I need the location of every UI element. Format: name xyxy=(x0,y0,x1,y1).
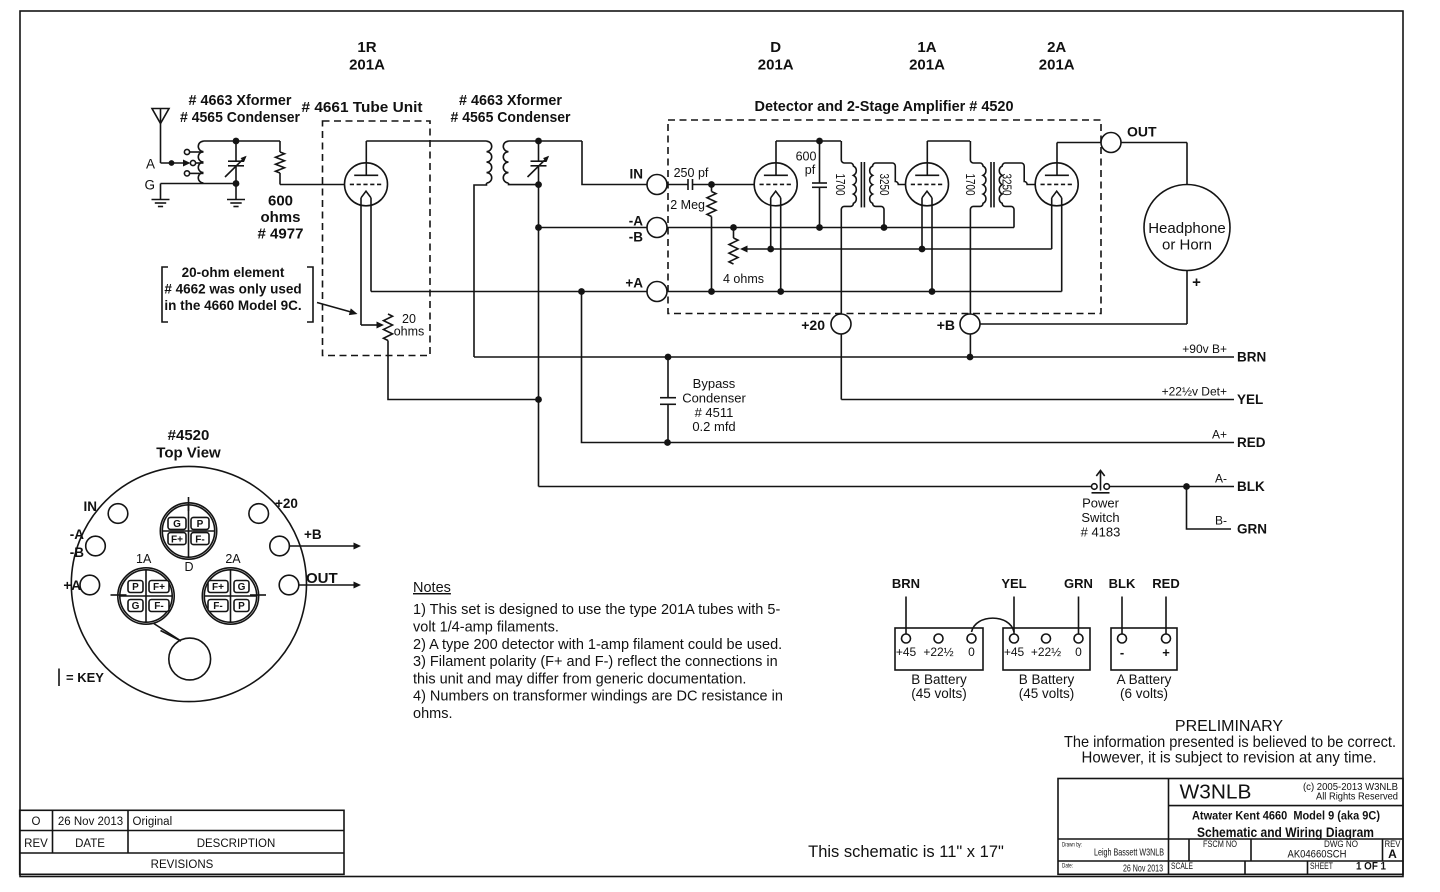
socket D pin F+ xyxy=(168,533,186,545)
capacitor C5 bypass # 4511 xyxy=(667,357,669,398)
svg-text:P: P xyxy=(132,582,139,593)
svg-text:2A: 2A xyxy=(1047,39,1066,56)
svg-text:# 4663 Xformer: # 4663 Xformer xyxy=(189,92,292,109)
socket 1A key mark xyxy=(111,594,127,596)
svg-text:(45 volts): (45 volts) xyxy=(1019,686,1075,701)
socket D pin P xyxy=(191,517,209,529)
node BLK to GRN xyxy=(1183,483,1190,490)
svg-text:201A: 201A xyxy=(909,57,945,74)
svg-text:4 ohms: 4 ohms xyxy=(723,272,764,286)
rheostat R4 4 ohms xyxy=(733,228,735,239)
svg-text:1A: 1A xyxy=(136,552,152,566)
wire -A -B rail xyxy=(539,227,1015,229)
rheostat R2 20 ohms xyxy=(384,314,393,340)
svg-text:Power: Power xyxy=(1082,496,1120,511)
arrow +B lead xyxy=(289,545,355,547)
wire BLK battery lead xyxy=(1121,597,1123,635)
svg-text:D: D xyxy=(770,39,781,56)
svg-text:+22½v Det+: +22½v Det+ xyxy=(1162,385,1227,399)
svg-text:in the 4660 Model 9C.: in the 4660 Model 9C. xyxy=(164,298,301,313)
svg-text:+: + xyxy=(1192,274,1201,291)
svg-text:(6 volts): (6 volts) xyxy=(1120,686,1168,701)
svg-text:+22½: +22½ xyxy=(1031,645,1061,659)
socket 2A pin P xyxy=(234,600,249,612)
svg-text:G: G xyxy=(132,601,140,612)
svg-text:2 Meg: 2 Meg xyxy=(670,198,705,212)
socket D pin F- xyxy=(191,533,209,545)
svg-text:0: 0 xyxy=(1075,645,1082,659)
transformer T4 primary 1700 xyxy=(970,141,986,357)
ground xyxy=(160,184,162,200)
wire tube 1A filament left leg xyxy=(921,198,923,249)
svg-text:20-ohm element: 20-ohm element xyxy=(182,265,285,280)
socket 1A pin G xyxy=(128,600,143,612)
wire tube 1A filament right leg xyxy=(931,198,933,292)
svg-text:B Battery: B Battery xyxy=(1019,672,1075,687)
battery A terminal minus xyxy=(1118,634,1127,643)
wire tube D plate to T3 xyxy=(776,140,841,142)
svg-text:201A: 201A xyxy=(349,57,385,74)
svg-text:-: - xyxy=(1120,645,1124,660)
terminal OUT xyxy=(1101,133,1121,153)
socket 1A divider cross xyxy=(120,595,172,597)
socket 2A pin G xyxy=(234,581,249,593)
svg-text:or Horn: or Horn xyxy=(1162,237,1212,254)
svg-text:-B: -B xyxy=(629,230,643,245)
svg-text:201A: 201A xyxy=(1039,57,1075,74)
node bypass bottom xyxy=(664,439,671,446)
wire tube D filament left leg xyxy=(770,198,772,249)
arrow OUT lead xyxy=(298,584,355,586)
key circle bottom xyxy=(169,638,211,680)
svg-text:Detector and 2-Stage Amplifier: Detector and 2-Stage Amplifier # 4520 xyxy=(755,99,1014,115)
tube 1R grid xyxy=(350,183,381,185)
svg-text:AK04660SCH: AK04660SCH xyxy=(1288,849,1347,861)
wire A+ drop to RED rail xyxy=(582,292,1235,443)
socket 2A key mark xyxy=(250,594,266,596)
svg-text:3250: 3250 xyxy=(877,174,891,196)
svg-text:1) This set is designed to use: 1) This set is designed to use the type … xyxy=(413,602,780,618)
svg-text:600: 600 xyxy=(268,193,293,210)
wire headphone to +B xyxy=(980,323,1187,325)
svg-text:2A: 2A xyxy=(225,552,241,566)
terminal +20 xyxy=(831,314,851,334)
svg-text:Headphone: Headphone xyxy=(1148,220,1226,237)
variable capacitor arrow xyxy=(225,157,246,177)
node bypass top xyxy=(665,354,672,361)
resistor R1 600 ohms # 4977 xyxy=(279,141,281,152)
terminal +A xyxy=(647,282,667,302)
svg-text:26 Nov 2013: 26 Nov 2013 xyxy=(1123,863,1163,875)
svg-text:+B: +B xyxy=(304,527,322,542)
node tuning cap top xyxy=(233,138,240,145)
tube 1R filament xyxy=(361,191,371,198)
socket 2A outline xyxy=(202,568,258,624)
svg-text:Switch: Switch xyxy=(1081,510,1119,525)
wire RED battery lead xyxy=(1165,597,1167,635)
svg-text:+22½: +22½ xyxy=(923,645,953,659)
node tuning cap bottom xyxy=(233,180,240,187)
svg-text:RED: RED xyxy=(1237,435,1266,450)
svg-text:All Rights Reserved: All Rights Reserved xyxy=(1316,792,1398,803)
svg-text:P: P xyxy=(197,519,204,530)
svg-text:1R: 1R xyxy=(357,39,376,56)
socket D pin G xyxy=(168,517,186,529)
tube 1A plate xyxy=(915,174,939,176)
transformer T1 antenna coil # 4663 xyxy=(198,141,203,183)
tube 1R plate xyxy=(354,174,378,176)
terminal T1 tap bottom xyxy=(184,171,189,176)
node wiper D xyxy=(767,246,774,253)
wire BRN rail +90v B+ xyxy=(474,356,1234,358)
title block frame xyxy=(1058,779,1403,875)
svg-text:A-: A- xyxy=(1215,472,1227,486)
wire A input xyxy=(161,162,185,164)
variable capacitor plates xyxy=(235,141,237,161)
svg-text:1 OF 1: 1 OF 1 xyxy=(1356,861,1386,873)
svg-text:W3NLB: W3NLB xyxy=(1180,781,1252,804)
wire series jumper B1 to B2 xyxy=(972,618,1015,632)
svg-text:26 Nov 2013: 26 Nov 2013 xyxy=(58,816,123,828)
node T2 top xyxy=(535,138,542,145)
pointer lines to key circle xyxy=(153,623,181,641)
wire GRN stub B- xyxy=(1187,487,1232,530)
tube 1A grid xyxy=(911,183,942,185)
node 600pf top xyxy=(816,138,823,145)
power switch # 4183 xyxy=(1092,484,1098,490)
wire T3 primary to +20 and YEL rail xyxy=(841,399,1234,401)
svg-text:+90v B+: +90v B+ xyxy=(1182,342,1227,356)
terminal T1 tap top xyxy=(184,149,189,154)
wire GRN battery lead xyxy=(1078,597,1080,635)
battery B2 box xyxy=(1003,628,1090,670)
node -A -B tap xyxy=(535,224,542,231)
top view terminal OUT xyxy=(279,575,299,595)
svg-text:# 4661 Tube Unit: # 4661 Tube Unit xyxy=(302,99,423,116)
svg-text:The information presented is b: The information presented is believed to… xyxy=(1064,734,1396,751)
svg-text:PRELIMINARY: PRELIMINARY xyxy=(1175,718,1284,735)
svg-text:Leigh Bassett W3NLB: Leigh Bassett W3NLB xyxy=(1094,847,1164,859)
svg-text:+20: +20 xyxy=(275,496,298,511)
socket D key mark xyxy=(188,497,190,511)
svg-text:ohms: ohms xyxy=(394,325,425,339)
svg-text:0.2 mfd: 0.2 mfd xyxy=(692,419,735,434)
socket D outline xyxy=(160,503,216,559)
svg-text:However, it is subject to revi: However, it is subject to revision at an… xyxy=(1082,750,1377,767)
svg-text:2) A type 200 detector with 1-: 2) A type 200 detector with 1-amp filame… xyxy=(413,637,782,653)
wire T2 secondary top to IN xyxy=(509,140,583,142)
tube 2A plate xyxy=(1045,174,1069,176)
svg-text:GRN: GRN xyxy=(1064,576,1093,591)
battery B2 terminal +45 xyxy=(1010,634,1019,643)
svg-text:YEL: YEL xyxy=(1001,576,1026,591)
tube 1R 201A envelope xyxy=(345,163,388,206)
svg-text:YEL: YEL xyxy=(1237,392,1263,407)
transformer T4 core xyxy=(990,162,992,207)
svg-text:3250: 3250 xyxy=(1000,174,1014,196)
wire filament wiper rail xyxy=(748,248,1052,250)
battery B1 terminal +22.5 xyxy=(934,634,943,643)
svg-text:GRN: GRN xyxy=(1237,522,1267,537)
battery B2 terminal 0 xyxy=(1074,634,1083,643)
svg-text:F+: F+ xyxy=(153,582,165,593)
svg-text:-B: -B xyxy=(70,545,84,560)
svg-text:F+: F+ xyxy=(171,534,183,545)
svg-text:BRN: BRN xyxy=(1237,350,1266,365)
node R3 bottom xyxy=(708,288,715,295)
node grid leak xyxy=(708,181,715,188)
svg-text:+A: +A xyxy=(625,276,643,291)
svg-text:+45: +45 xyxy=(1004,645,1025,659)
node T3 secondary bottom xyxy=(881,224,888,231)
top view terminal +A xyxy=(80,575,100,595)
battery A terminal plus xyxy=(1162,634,1171,643)
svg-text:3) Filament polarity (F+ and F: 3) Filament polarity (F+ and F-) reflect… xyxy=(413,654,778,670)
wire tube 1R filament right leg to +A rail xyxy=(370,198,372,292)
node rheostat return xyxy=(535,396,542,403)
wire R2 bottom to node xyxy=(388,341,539,400)
transformer T3 core xyxy=(860,162,862,207)
node filament D +A xyxy=(777,288,784,295)
svg-text:BRN: BRN xyxy=(892,576,920,591)
svg-text:G: G xyxy=(173,519,181,530)
wire BLK rail A- xyxy=(539,486,1092,488)
terminal -A -B xyxy=(647,218,667,238)
svg-text:Top View: Top View xyxy=(156,445,221,462)
dashed box # 4661 Tube Unit xyxy=(323,121,431,356)
svg-text:+A: +A xyxy=(63,578,81,593)
svg-text:ohms: ohms xyxy=(260,209,300,226)
svg-text:RED: RED xyxy=(1152,576,1179,591)
svg-text:pf: pf xyxy=(805,163,816,177)
tube 1A filament xyxy=(922,191,932,198)
socket 1A outline xyxy=(118,568,174,624)
svg-text:4) Numbers on transformer wind: 4) Numbers on transformer windings are D… xyxy=(413,689,783,705)
svg-text:this unit and may differ from: this unit and may differ from generic do… xyxy=(413,671,746,687)
svg-text:BLK: BLK xyxy=(1237,479,1265,494)
node filament 1A +A xyxy=(929,288,936,295)
transformer T3 primary 1700 xyxy=(841,141,856,400)
svg-text:= KEY: = KEY xyxy=(66,670,104,685)
resistor R3 2 Meg xyxy=(711,185,713,192)
wire common negative drop xyxy=(538,185,540,487)
svg-text:DESCRIPTION: DESCRIPTION xyxy=(197,838,276,850)
wire tube D filament right leg xyxy=(780,198,782,292)
arrow R4 wiper xyxy=(740,246,748,253)
socket 2A pin F- xyxy=(208,600,228,612)
svg-text:# 4662 was only used: # 4662 was only used xyxy=(164,282,301,297)
battery B1 terminal 0 xyxy=(967,634,976,643)
svg-text:# 4663 Xformer: # 4663 Xformer xyxy=(459,92,562,109)
svg-text:F-: F- xyxy=(154,601,163,612)
tube D grid xyxy=(760,183,791,185)
tube 2A 201A envelope xyxy=(1035,163,1078,206)
wire tube 1A plate to T4 xyxy=(927,140,970,142)
key legend xyxy=(58,669,60,687)
terminal +B xyxy=(960,314,980,334)
svg-text:600: 600 xyxy=(796,150,817,164)
capacitor C4 600 pf xyxy=(819,141,821,183)
arrow callout to filament xyxy=(317,303,351,313)
svg-text:Date:: Date: xyxy=(1062,863,1073,870)
variable capacitor plates xyxy=(538,141,540,161)
svg-text:# 4183: # 4183 xyxy=(1081,525,1121,540)
svg-text:B-: B- xyxy=(1215,514,1227,528)
svg-text:A: A xyxy=(146,157,155,172)
svg-text:IN: IN xyxy=(84,499,98,514)
wire tube 2A plate to OUT xyxy=(1057,142,1187,144)
svg-text:A: A xyxy=(1388,847,1397,861)
svg-text:volt 1/4-amp filaments.: volt 1/4-amp filaments. xyxy=(413,620,559,636)
wire tube 1R plate to T2 xyxy=(366,140,486,142)
svg-text:G: G xyxy=(144,178,155,193)
svg-text:1A: 1A xyxy=(917,39,936,56)
wire +A rail xyxy=(371,291,1062,293)
svg-text:+: + xyxy=(1162,645,1170,660)
antenna xyxy=(152,109,169,124)
svg-text:SHEET: SHEET xyxy=(1310,861,1333,872)
svg-text:201A: 201A xyxy=(758,57,794,74)
socket 1A pin P xyxy=(128,581,143,593)
transformer T3 secondary 3250 xyxy=(870,163,906,228)
socket 2A divider cross xyxy=(204,595,256,597)
wire G input xyxy=(161,183,237,185)
svg-text:D: D xyxy=(184,560,193,574)
svg-text:# 4977: # 4977 xyxy=(258,226,304,243)
top view terminal IN xyxy=(108,504,128,524)
wire IN feed xyxy=(582,141,688,185)
node +B to BRN xyxy=(967,354,974,361)
svg-text:Schematic and Wiring Diagram: Schematic and Wiring Diagram xyxy=(1197,824,1374,840)
wire YEL battery lead xyxy=(1013,597,1015,635)
svg-text:F-: F- xyxy=(195,534,204,545)
tube 2A filament xyxy=(1052,191,1062,198)
svg-text:REV: REV xyxy=(24,838,48,850)
top view terminal -A -B xyxy=(86,536,106,556)
svg-text:# 4565 Condenser: # 4565 Condenser xyxy=(451,109,571,126)
svg-text:A+: A+ xyxy=(1212,428,1227,442)
svg-text:Condenser: Condenser xyxy=(682,390,746,405)
svg-text:B Battery: B Battery xyxy=(911,672,967,687)
wire tube 2A filament right leg xyxy=(1061,198,1063,292)
top view terminal +B xyxy=(270,536,290,556)
node R4 top xyxy=(730,224,737,231)
svg-text:Drawn by:: Drawn by: xyxy=(1062,842,1082,849)
node 600pf bottom xyxy=(816,224,823,231)
top view terminal +20 xyxy=(249,504,269,524)
dashed box Detector and 2-Stage Amplifier # 4520 xyxy=(668,120,1101,314)
socket 2A pin F+ xyxy=(208,581,228,593)
svg-text:REVISIONS: REVISIONS xyxy=(151,859,214,871)
socket 1A pin F+ xyxy=(149,581,169,593)
svg-text:250 pf: 250 pf xyxy=(674,166,709,180)
svg-text:-A: -A xyxy=(629,214,643,229)
tube D plate xyxy=(764,174,788,176)
tube 1A 201A envelope xyxy=(906,163,949,206)
svg-text:ohms.: ohms. xyxy=(413,706,453,722)
T1 tap stubs xyxy=(190,151,204,153)
svg-text:(45 volts): (45 volts) xyxy=(911,686,967,701)
ground xyxy=(235,184,237,200)
terminal IN xyxy=(647,175,667,195)
svg-text:DATE: DATE xyxy=(75,838,105,850)
svg-text:FSCM NO: FSCM NO xyxy=(1203,839,1237,850)
node T2 bottom xyxy=(535,181,542,188)
svg-text:+20: +20 xyxy=(801,317,825,333)
svg-text:+45: +45 xyxy=(896,645,917,659)
socket 1A pin F- xyxy=(149,600,169,612)
terminal A tap circle xyxy=(190,160,195,165)
svg-text:Original: Original xyxy=(133,816,173,828)
svg-text:IN: IN xyxy=(630,167,644,182)
battery B1 box xyxy=(895,628,983,670)
svg-text:1700: 1700 xyxy=(833,174,847,196)
transformer T4 secondary 3250 xyxy=(999,163,1035,228)
svg-text:This schematic is 11" x 17": This schematic is 11" x 17" xyxy=(808,843,1004,861)
svg-text:P: P xyxy=(238,601,245,612)
svg-text:A Battery: A Battery xyxy=(1117,672,1172,687)
revisions table xyxy=(20,810,344,874)
variable capacitor arrow xyxy=(528,157,549,177)
svg-text:Atwater Kent 4660 Model 9 (ak: Atwater Kent 4660 Model 9 (aka 9C) xyxy=(1192,809,1380,823)
svg-text:F+: F+ xyxy=(212,582,224,593)
arrow rheostat R2 wiper xyxy=(377,322,385,329)
svg-text:#4520: #4520 xyxy=(168,427,210,444)
tube D filament xyxy=(771,191,781,198)
svg-text:G: G xyxy=(238,582,246,593)
svg-text:# 4511: # 4511 xyxy=(695,405,734,420)
svg-text:0: 0 xyxy=(968,645,975,659)
headphone or horn xyxy=(1144,185,1230,271)
wire T1 top xyxy=(204,140,281,142)
wire BRN battery lead xyxy=(905,597,907,635)
arrow A tap xyxy=(183,160,191,167)
tube D 201A envelope xyxy=(754,163,797,206)
svg-text:F-: F- xyxy=(213,601,222,612)
svg-text:Bypass: Bypass xyxy=(693,376,736,391)
svg-text:-A: -A xyxy=(70,527,84,542)
svg-text:BLK: BLK xyxy=(1109,576,1136,591)
socket D divider cross xyxy=(162,530,214,532)
svg-text:Notes: Notes xyxy=(413,580,451,596)
node wiper 1A xyxy=(919,246,926,253)
node A+ takeoff xyxy=(578,288,585,295)
node A junction xyxy=(169,160,175,166)
top view unit outline circle xyxy=(71,466,306,701)
wire headphone drop xyxy=(1186,143,1188,325)
svg-text:# 4565 Condenser: # 4565 Condenser xyxy=(180,109,300,126)
battery A box xyxy=(1111,628,1177,670)
tube 2A grid xyxy=(1041,183,1072,185)
svg-text:O: O xyxy=(32,816,41,828)
wire R1 to tube 1R grid xyxy=(280,184,344,186)
wire tube 2A filament left leg xyxy=(1051,198,1053,249)
transformer T2 secondary coil xyxy=(503,141,508,183)
svg-text:OUT: OUT xyxy=(1127,124,1157,140)
capacitor C3 250 pf xyxy=(687,179,689,190)
svg-text:1700: 1700 xyxy=(963,174,977,196)
transformer T2 primary coil xyxy=(487,141,492,183)
battery B2 terminal +22.5 xyxy=(1042,634,1051,643)
battery B1 terminal +45 xyxy=(902,634,911,643)
svg-text:+B: +B xyxy=(937,317,955,333)
svg-text:SCALE: SCALE xyxy=(1171,861,1193,872)
wire tube 1R filament left leg xyxy=(360,198,362,325)
